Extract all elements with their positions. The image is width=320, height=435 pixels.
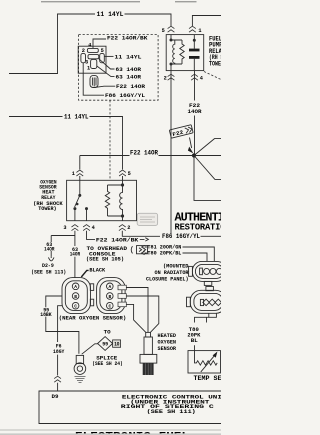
switch terminal dot pin4 [85,207,88,210]
svg-text:(MOUNTED: (MOUNTED [163,263,189,269]
svg-text:F86 16GY/YL: F86 16GY/YL [105,93,145,99]
svg-text:F22: F22 [189,103,200,109]
ground micro text [75,376,86,382]
label HEATED OXYGEN SENSOR [158,333,177,352]
wires below lower connector [195,313,217,350]
svg-text:2: 2 [82,48,85,54]
connector body [78,46,106,73]
connector cavity 4 [87,48,98,52]
svg-text:(SEE SH 105): (SEE SH 105) [86,257,124,263]
label (MOUNTED ON RADIATOR CLOSURE PANEL) [146,263,189,282]
coil (oxygen relay) [120,185,123,216]
relay contact branch (right interior) [193,35,195,71]
svg-text:11 14YL: 11 14YL [64,114,89,121]
svg-text:RESTORATION: RESTORATION [175,222,222,232]
connector cavity 5 [100,53,105,62]
leader + label F22 14OR (connector) [94,86,115,87]
arrow continuation [140,238,149,241]
oxygen relay pin 5 chevrons [119,170,126,176]
wires to bottom pins [75,209,87,221]
svg-text:B: B [108,294,111,300]
splice diamond 99 [98,337,113,351]
radiator connector lower [187,287,227,314]
oxygen relay pin 1 chevrons [76,170,83,176]
svg-text:1: 1 [72,171,75,177]
label T80 20PK 8L [187,327,201,344]
svg-text:11 14YL: 11 14YL [115,54,142,60]
svg-text:C: C [108,304,111,310]
svg-text:TOWER): TOWER) [38,206,56,212]
leader + label F22 14OR/BK (connector) [93,39,106,48]
pin stubs into relay box [80,176,123,180]
oxygen relay pin 4 chevrons [83,225,90,231]
ECU box [39,391,221,424]
svg-text:1O: 1O [114,342,119,348]
wire to fuel pump relay pin 1 (from right edge) [192,16,221,27]
wire 11 14YL (lower run, to oxygen relay pin 5) [9,117,123,170]
svg-text:D2-9: D2-9 [42,263,54,269]
svg-text:F22 14OR: F22 14OR [116,84,146,90]
right connector pin B [107,293,114,300]
wire fuel relay pin 2 down to F86 line [170,71,172,234]
wire F22 14OR (junction to oxygen relay pin 1) [80,156,194,170]
heated oxygen sensor [140,332,157,375]
leader + label 63 14OR (connector, lower) [97,66,115,77]
svg-text:5: 5 [162,28,165,34]
svg-text:14OR: 14OR [44,246,55,252]
contact bar upper [189,49,200,52]
svg-text:T80 20PK/BL: T80 20PK/BL [147,251,181,257]
connector keyway [90,76,98,88]
svg-text:(SEE SH 111): (SEE SH 111) [147,409,196,415]
wire fuel relay pin 4 down to junction [194,71,196,154]
svg-text:5: 5 [101,48,104,54]
leader + label F86 16GY/YL (connector) [83,63,104,95]
svg-text:F22 14OR/BK: F22 14OR/BK [96,237,139,243]
wires right connector to heated oxygen sensor [126,288,148,333]
svg-text:BL: BL [191,338,198,344]
svg-text:(SEE SH 113): (SEE SH 113) [31,269,66,275]
svg-text:2: 2 [164,75,167,81]
fork symbol D2-9 [48,256,54,261]
wire F6 18GY (pin C to ECU D9) [58,306,62,391]
svg-text:11 14YL: 11 14YL [97,11,124,18]
svg-text:3: 3 [63,225,66,231]
relay switch (left interior) [75,180,80,207]
right connector pin C [107,302,114,309]
svg-text:2: 2 [127,225,130,231]
svg-text:HEATED: HEATED [158,333,177,339]
oxygen relay pin 2 chevrons [119,225,126,231]
temp sensor box [188,351,221,373]
svg-text:14OR: 14OR [188,109,203,115]
resistor (oxygen relay) [105,185,109,216]
wire branch diagonal up-right [194,139,221,156]
watermark logo [137,213,157,225]
F6 in-line connector chevrons [54,376,61,382]
dashed leader to relay [109,100,111,180]
connector cavity 3 [88,55,99,59]
node dot coil top [121,183,124,186]
resistor (relay coil shunt) [180,40,184,64]
svg-text:CLOSURE PANEL): CLOSURE PANEL) [146,277,189,283]
right connector pin A [107,283,114,290]
faint rule above title block [0,429,221,431]
svg-text:1: 1 [87,66,90,72]
svg-text:1: 1 [198,28,201,34]
switch terminal dot pin3 [73,207,76,210]
wire 11 14YL (upper run, fuel pump relay pin 5) [9,14,171,74]
svg-text:63 14OR: 63 14OR [116,74,142,80]
svg-text:TEMP SENSOR: TEMP SENSOR [194,375,222,382]
radiator connector upper [189,261,227,285]
right connector terminal tabs [118,285,126,290]
console connector symbol [131,246,147,254]
label OXYGEN SENSOR HEAT RELAY (RH SHOCK TOWER) [33,179,63,212]
connector cavity 2 [81,53,86,62]
svg-text:OXYGEN: OXYGEN [158,340,177,346]
svg-text:A: A [74,284,77,290]
F22 flag (off-page reference) [169,125,193,139]
node dot top left [170,39,173,42]
fuel pump relay pin 2 chevrons [168,74,175,80]
svg-text:F86 16GY/YL: F86 16GY/YL [162,233,200,240]
label TO OVERHEAD CONSOLE (SEE SH 105) [86,246,127,263]
right oxygen connector body [97,278,126,314]
dashed leader from relay box corner [204,72,221,80]
svg-text:(NEAR OXYGEN SENSOR): (NEAR OXYGEN SENSOR) [59,315,127,321]
svg-text:F22 14OR: F22 14OR [130,149,158,156]
parallel resistor-coil loop buses [108,180,123,220]
svg-text:D9: D9 [52,394,59,400]
node F22 junction [192,153,196,157]
left connector pin B [72,293,79,300]
connector cavity 1 [91,59,97,68]
left connector pin A [72,283,79,290]
svg-text:ON RADIATOR: ON RADIATOR [155,270,190,276]
wire branch right from junction [194,155,221,157]
wire T80 20PK/BL [142,251,207,261]
fuel pump relay pin 1 chevrons [189,26,196,32]
svg-text:B: B [74,294,77,300]
left connector pin C [72,302,79,309]
thermistor arrow [201,355,215,372]
relay coil branch (left interior) [171,35,182,71]
fuel pump relay pin 4 chevrons [191,74,198,80]
leader + label 11 14YL (connector) [104,55,113,57]
svg-text:(SEE SH 24): (SEE SH 24) [92,361,123,367]
label ELECTRONIC CONTROL UNIT [121,394,222,415]
svg-text:F22 14OR/BK: F22 14OR/BK [107,35,148,41]
svg-text:5: 5 [128,171,131,177]
svg-text:99: 99 [102,341,108,347]
wire branch down then right [194,156,221,201]
left connector tabs [90,284,93,291]
label FUEL PUMP RELAY (RH SHOCK TOWER) [209,36,235,68]
svg-text:18BK: 18BK [40,312,52,318]
contact bar lower [189,56,200,59]
svg-text:A: A [108,284,111,290]
svg-text:3: 3 [85,59,88,65]
switch pivot dot [78,194,81,197]
node dot bottom left [170,63,173,66]
coil [173,40,175,64]
svg-text:BLACK: BLACK [89,268,106,274]
temp sensor resistor [195,351,218,365]
wire cropped at top edge [41,1,197,3]
fuel pump relay box [166,35,204,71]
svg-text:18GY: 18GY [53,349,65,355]
dashed connector box (oxygen sensor heat relay connector) [79,35,159,101]
left oxygen connector body [62,278,91,314]
flag leader arrow to junction [190,138,192,149]
leader + label 63 14OR (connector, upper) [99,59,115,69]
wire branch diagonal down-right [194,156,221,180]
wire 63 14OR split [51,231,75,278]
svg-text:TOWER): TOWER) [209,60,221,67]
node dot coil bottom [121,214,124,217]
svg-text:C: C [74,304,77,310]
svg-text:63 14OR: 63 14OR [116,67,142,73]
wire F86 16GY/YL [122,231,221,237]
ground eyelet terminal [74,355,86,374]
wire F22 14OR/BK (oxygen relay pin 4 to overhead console) [87,231,96,240]
wire 99 18BK (pin B to ground eyelet) [46,296,79,354]
oxygen relay pin 3 chevrons [72,225,79,231]
oxygen sensor heat relay box [67,180,137,220]
splice sheet box [113,340,121,347]
wire T81 20OR/GN [142,245,215,261]
svg-text:14OR: 14OR [70,252,81,258]
node dot contact [193,39,196,42]
svg-text:TO: TO [104,330,111,336]
fuel pump relay pin 5 chevrons [168,26,175,32]
bottom edge shading [0,433,221,435]
wire to splice 99 [82,344,98,354]
svg-text:SENSOR: SENSOR [158,346,177,352]
